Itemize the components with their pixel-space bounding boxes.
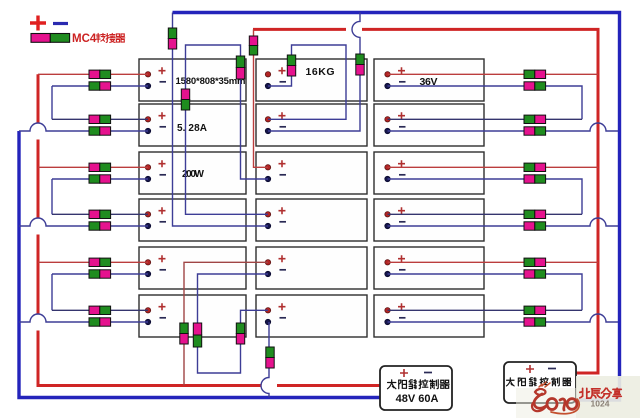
left red bus wire (gaps at wire hops) [38,74,380,385]
svg-text:48V 60A: 48V 60A [396,393,439,405]
svg-text:1024: 1024 [591,399,610,409]
solar panel PV3-2 (col 3 row 2) [374,104,484,146]
MC4 connector on col2 row5 negative drop [193,323,201,347]
solar panel PV2-2 (col 2 row 2) [256,104,367,146]
MC4 connector col1 row2 negative wire [89,127,111,135]
wire series riser col1 rows 5-6 [51,274,53,310]
wire col1 row1 positive to left red bus [38,73,148,75]
MC4 connector on col2 row3 negative riser [236,56,244,79]
PV1-2 positive terminal [145,117,150,122]
MC4 connector col3 row5 negative wire [524,270,546,278]
wire series riser col1 rows 3-4 [51,179,53,214]
wire col3 row2 positive from series riser [388,118,583,120]
solar panel PV3-1 (col 3 row 1) [374,59,484,101]
MC4 connector col3 row3 negative wire [524,175,546,183]
watermark background tint left [516,388,576,418]
MC4 connector col3 row4 negative wire [524,222,546,230]
wire col2 row5 positive to bottom red bus [184,262,268,385]
PV3-6 positive terminal [385,308,390,313]
MC4 connector col3 row2 positive wire [524,115,546,123]
MC4 connector col3 row2 negative wire [524,127,546,135]
PV3-3 positive terminal [385,165,390,170]
solar controller 1 box [380,366,452,410]
wire col1 row3 negative to series riser [52,178,148,180]
svg-text:5. 28A: 5. 28A [177,123,207,134]
PV1-1 positive terminal [145,72,150,77]
solar panel PV1-6 (col 1 row 6) [139,295,246,337]
PV3-6 negative terminal [385,319,390,324]
svg-text:16KG: 16KG [306,66,335,78]
legend label MC4转接器 [72,33,125,45]
watermark logo swirl [532,382,579,414]
MC4 connector col1 row4 negative wire [89,222,111,230]
MC4 connector col1 row2 positive wire [89,115,111,123]
solar panel PV1-1 (col 1 row 1) [139,59,246,101]
wire col3 row3 negative to series riser [388,179,583,214]
MC4 connector col1 row5 positive wire [89,258,111,266]
wire col1 row3 positive to left red bus [38,166,148,168]
PV2-1 positive terminal [265,72,270,77]
solar panel PV1-3 (col 1 row 3) [139,152,246,194]
wire col3 row6 positive from series riser [388,309,583,311]
MC4 connector on col2 row3 positive riser [249,36,257,55]
MC4 connector on col2 row4 negative riser [168,28,176,49]
MC4 connector col1 row6 negative wire [89,318,111,326]
PV1-5 negative terminal [145,271,150,276]
solar panel PV2-5 (col 2 row 5) [256,247,367,289]
PV3-3 negative terminal [385,176,390,181]
wire col3 row1 positive to right red bus [388,73,599,75]
MC4 connector col1 row6 positive wire [89,306,111,314]
solar panel PV3-6 (col 3 row 6) [374,295,484,337]
wire col3 row6 negative to right blue bus (hop over red bus) [388,314,619,322]
PV3-1 negative terminal [385,83,390,88]
PV1-3 negative terminal [145,176,150,181]
solar controller 2 box [504,362,576,403]
PV1-2 negative terminal [145,128,150,133]
MC4 connector on col2 row2 negative riser [356,54,364,75]
PV1-6 negative terminal [145,319,150,324]
wire series riser col1 rows 1-2 [51,86,53,119]
PV3-2 negative terminal [385,128,390,133]
wire col2 row2 negative to top blue bus (hop over top red bus) [268,13,360,132]
svg-text:MC4: MC4 [72,33,97,45]
wire col1 row4 positive from series riser [52,213,148,215]
PV3-4 negative terminal [385,223,390,228]
MC4 connector col3 row5 positive wire [524,258,546,266]
wire col3 row1 negative to series riser [388,86,583,119]
top red bus wire (gap at hop) [253,28,346,31]
wire col2 row1 negative to row2 positive (bridge over top) [268,45,346,119]
PV2-2 positive terminal [265,117,270,122]
watermark background tint right [576,376,640,418]
MC4 connector col3 row4 positive wire [524,210,546,218]
top blue bus wire [173,13,620,401]
PV2-6 positive terminal [265,308,270,313]
wire col1 row5 negative to series riser [52,273,148,275]
PV2-5 positive terminal [265,260,270,265]
PV1-6 positive terminal [145,308,150,313]
controller 1 label 太阳能控制器 [387,380,395,389]
solar panel PV1-4 (col 1 row 4) [139,199,246,241]
PV1-4 positive terminal [145,212,150,217]
PV1-5 positive terminal [145,260,150,265]
PV1-1 negative terminal [145,83,150,88]
wire col2 row5 negative to row6 positive (bridge under bottom) [198,274,269,373]
wire col1 row6 negative to left blue bus (hop over red bus) [19,314,148,322]
PV2-4 positive terminal [265,212,270,217]
legend minus symbol [53,22,68,25]
MC4 connector on col2 row1 negative riser [287,55,295,76]
PV1-4 negative terminal [145,223,150,228]
MC4 connector col1 row1 positive wire [89,70,111,78]
top red bus right section to controller 2 [362,29,598,373]
wire col3 row2 negative to right blue bus (hop over red bus) [388,123,619,131]
wire col2 row3 positive from top red bus [254,29,269,167]
MC4 connector col1 row4 positive wire [89,210,111,218]
solar panel PV2-4 (col 2 row 4) [256,199,367,241]
legend MC4 connector block [31,34,70,43]
legend plus symbol [30,16,46,31]
solar panel PV1-2 (col 1 row 2) [139,104,246,146]
PV2-5 negative terminal [265,271,270,276]
PV3-2 positive terminal [385,117,390,122]
controller 1 plus terminal label [400,369,408,377]
watermark text 北辰分享 [580,388,590,398]
MC4 connector col1 row3 negative wire [89,175,111,183]
PV1-3 positive terminal [145,165,150,170]
MC4 connector on col2 row6 positive drop [236,323,244,344]
MC4 connector col1 row5 negative wire [89,270,111,278]
controller 2 label 太阳能控制器 [506,378,514,386]
wire col3 row4 negative to right blue bus (hop over red bus) [388,218,619,226]
solar panel PV2-3 (col 2 row 3) [256,152,367,194]
solar panel PV2-6 (col 2 row 6) [256,295,367,337]
MC4 connector col1 row3 positive wire [89,163,111,171]
PV2-6 negative terminal [265,319,270,324]
wire col1 row4 negative to left blue bus (hop over red bus) [19,218,148,226]
left blue bus wire [19,131,380,398]
PV2-2 negative terminal [265,128,270,133]
wire col2 row6 negative to bottom blue bus (hop over bottom red bus) [261,322,269,398]
MC4 connector col3 row1 negative wire [524,82,546,90]
MC4 connector on col2 row4 positive riser [181,89,189,110]
PV2-1 negative terminal [265,83,270,88]
MC4 connector col1 row1 negative wire [89,82,111,90]
controller 2 minus terminal label [548,368,556,370]
MC4 connector on col2 row6 negative drop [266,347,274,368]
solar panel PV2-1 (col 2 row 1) [256,59,367,101]
PV3-4 positive terminal [385,212,390,217]
MC4 connector col3 row6 negative wire [524,318,546,326]
PV2-4 negative terminal [265,223,270,228]
solar panel PV3-4 (col 3 row 4) [374,199,484,241]
wire col1 row1 negative to series riser [52,85,148,87]
PV3-5 positive terminal [385,260,390,265]
bottom red bus gap at hop of col2 row6 negative [261,383,277,388]
PV3-5 negative terminal [385,271,390,276]
PV2-3 positive terminal [265,165,270,170]
PV2-3 negative terminal [265,176,270,181]
MC4 connector on col2 row5 positive drop [180,323,188,344]
MC4 connector col3 row1 positive wire [524,70,546,78]
wire col3 row5 positive to right red bus [388,261,599,263]
solar panel PV1-5 (col 1 row 5) [139,247,246,289]
wire col2 row3 negative to row4 positive (bridge over top) [186,45,269,214]
wire col3 row4 positive from series riser [388,213,583,215]
wire col1 row2 positive from series riser [52,118,148,120]
wire col2 row4 negative to top blue bus [173,13,269,227]
solar panel PV3-3 (col 3 row 3) [374,152,484,194]
wire col1 row5 positive to left red bus [38,261,148,263]
wire col3 row5 negative to series riser [388,274,583,310]
controller 1 minus terminal label [424,372,432,374]
MC4 connector col3 row6 positive wire [524,306,546,314]
wire col1 row2 negative to left blue bus (hop over red bus) [19,123,148,131]
wire col3 row3 positive to right red bus [388,166,599,168]
solar panel PV3-5 (col 3 row 5) [374,247,484,289]
MC4 connector col3 row3 positive wire [524,163,546,171]
PV3-1 positive terminal [385,72,390,77]
wire col1 row6 positive from series riser [52,309,148,311]
controller 2 plus terminal label [526,365,534,373]
